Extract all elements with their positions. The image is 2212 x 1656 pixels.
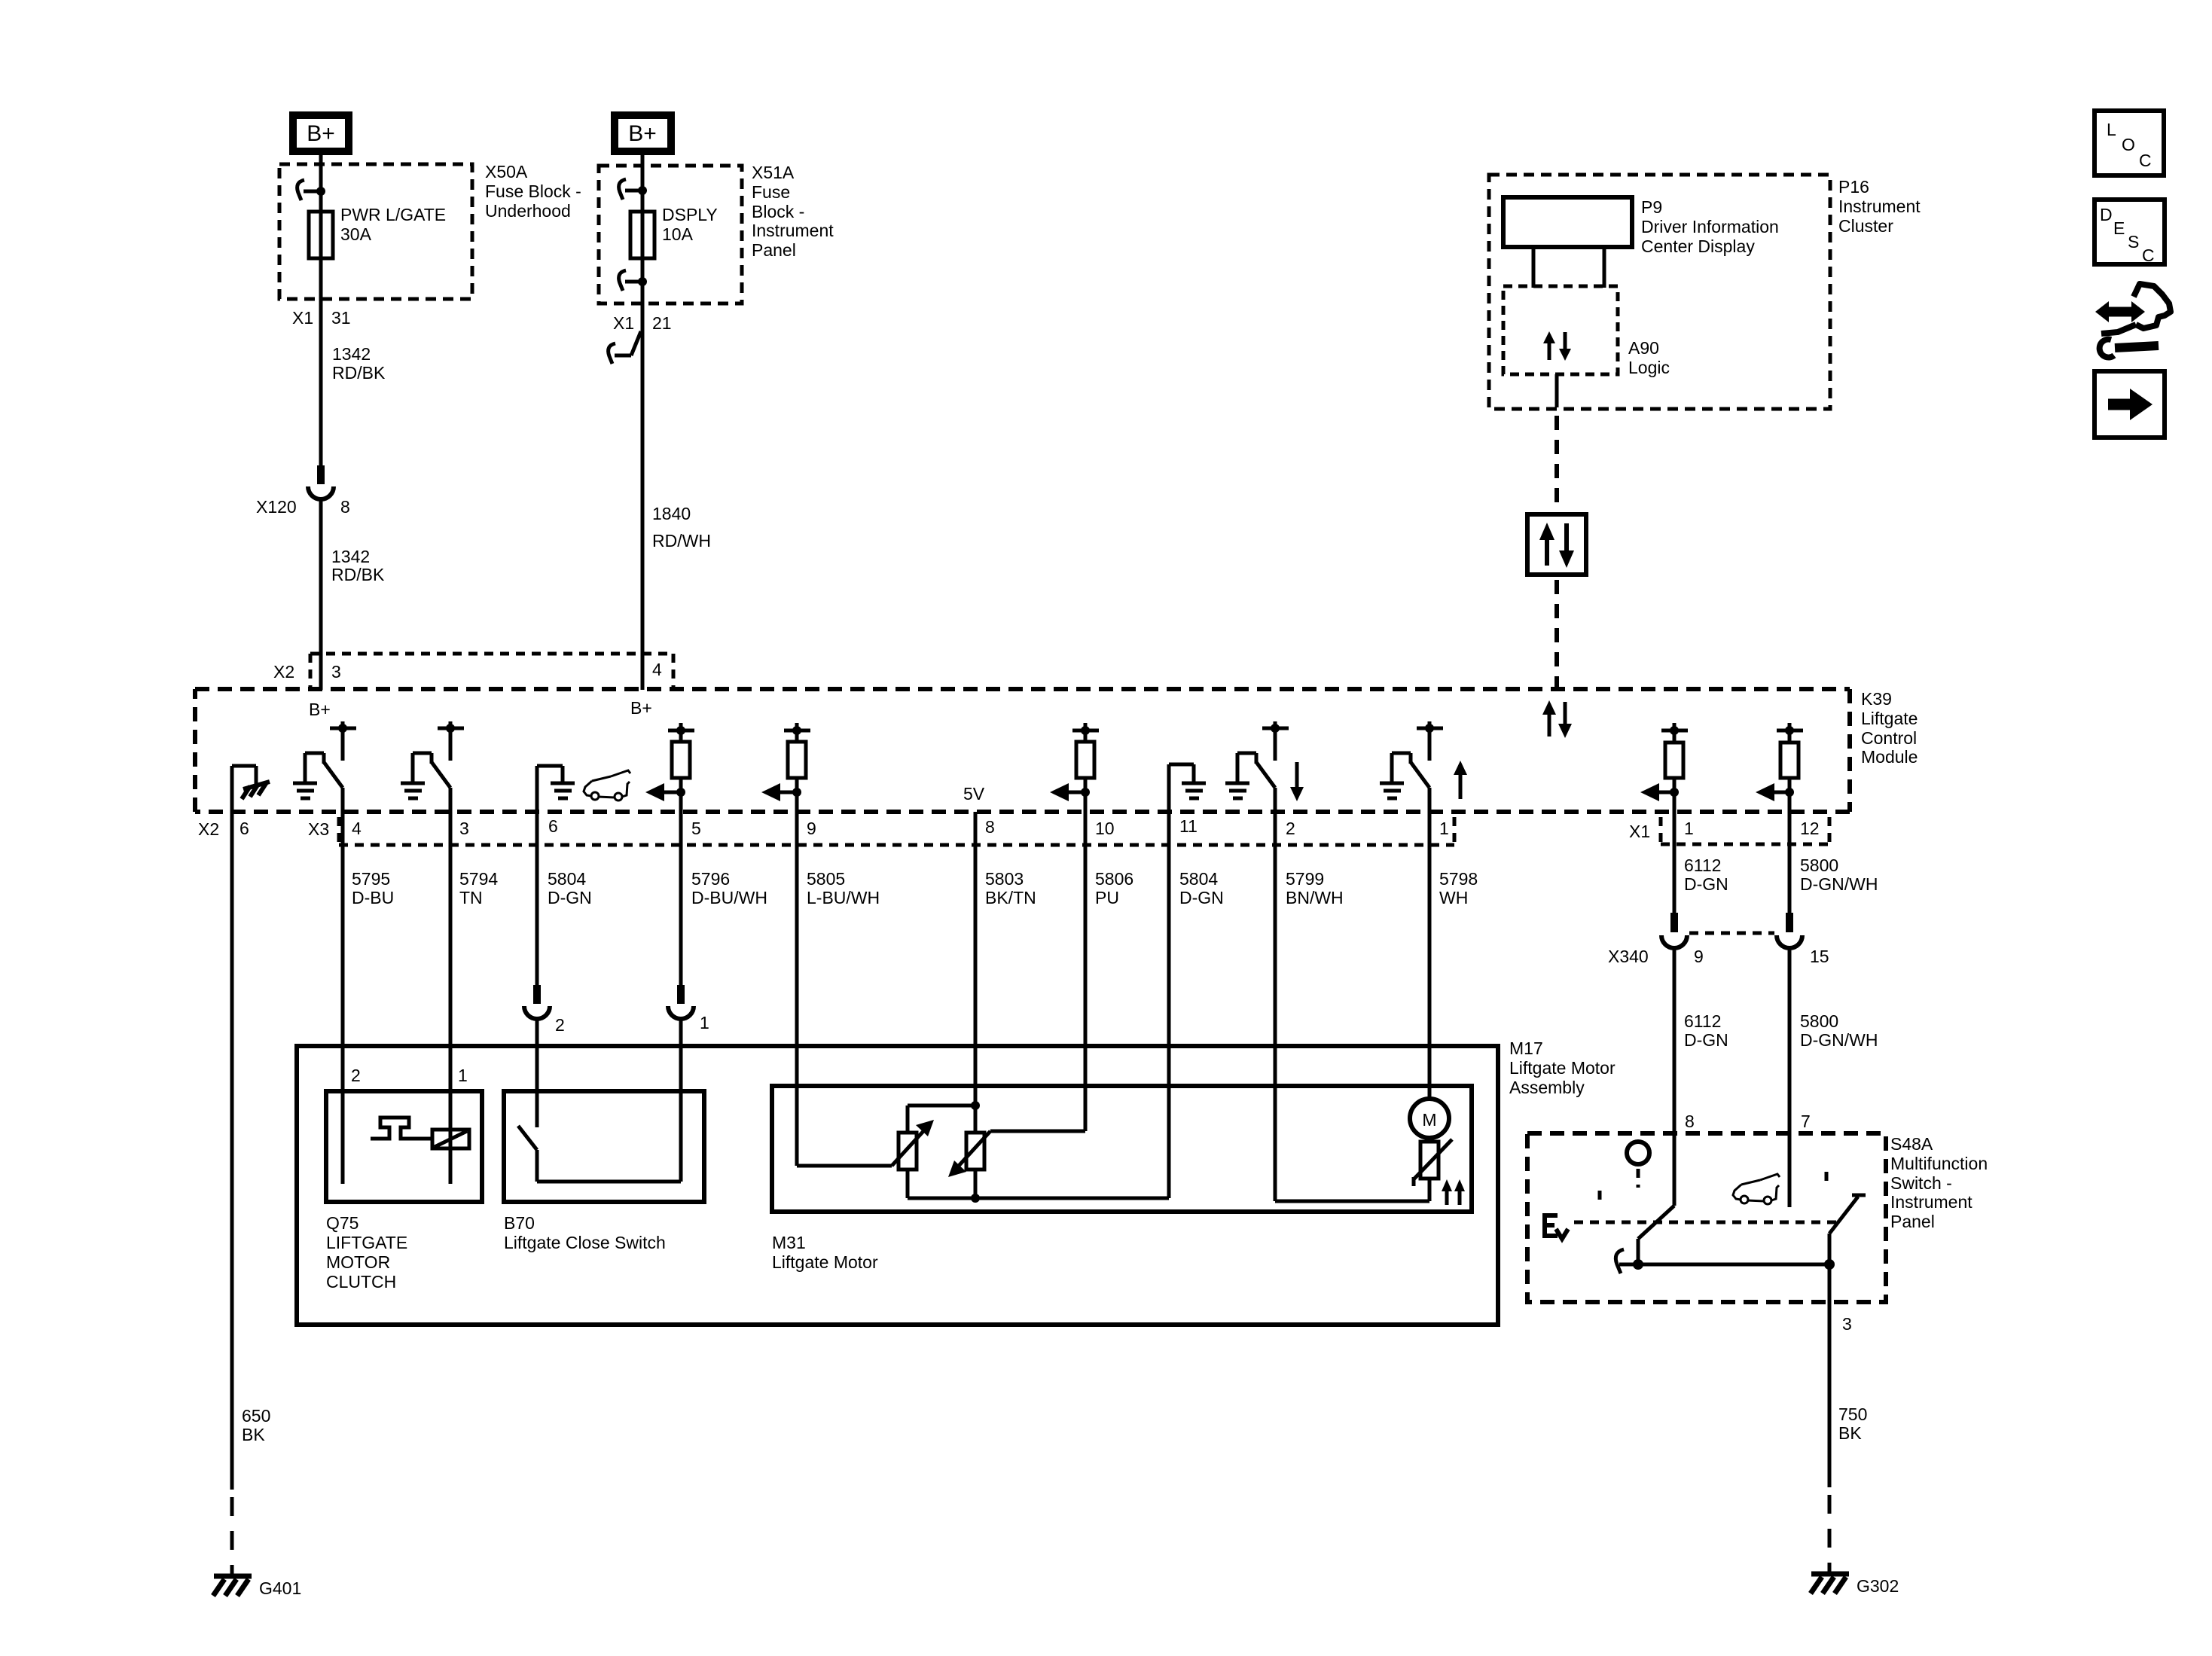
wire 5804 D-GN pin X3-11 to M31: [1167, 812, 1171, 1198]
thermal protector below motor: [1414, 1138, 1452, 1186]
dotted tie between X340 cavities: [1689, 932, 1774, 935]
wire motor return to pin X3-2: [1275, 1179, 1429, 1201]
svg-text:Module: Module: [1861, 747, 1918, 767]
input arrow at pin X3-5: [645, 783, 685, 801]
svg-text:BK/TN: BK/TN: [985, 888, 1036, 907]
svg-text:X1: X1: [1629, 822, 1650, 841]
connector X2 row bottom (pin 6) labels: [198, 819, 249, 839]
svg-text:BK: BK: [242, 1425, 265, 1444]
clutch Q75 box: [326, 1091, 482, 1202]
wire B+ to fuse F1: [319, 155, 323, 212]
node: junction dot fuse F2 input: [638, 186, 647, 195]
connector X340 inline (pin 9): [1661, 913, 1687, 948]
svg-text:5804: 5804: [1179, 869, 1218, 889]
switch contacts inside B70: [518, 1126, 681, 1182]
wire 650 BK pin X2-6 to G401: [230, 812, 234, 1574]
label wire 6112 D-GN (upper): [1684, 855, 1728, 894]
logic block A90 dashed box: [1503, 286, 1618, 374]
label P16 Instrument Cluster: [1838, 177, 1921, 236]
svg-text:D-GN: D-GN: [1179, 888, 1224, 907]
svg-text:Liftgate Close Switch: Liftgate Close Switch: [504, 1233, 666, 1252]
svg-text:B+: B+: [307, 121, 335, 146]
svg-text:Instrument: Instrument: [1890, 1192, 1972, 1212]
icon vehicle with double arrow and wrench: [2095, 284, 2171, 358]
wire 5804 D-GN pin X3-6 to connector: [535, 812, 539, 987]
svg-text:X1: X1: [292, 308, 313, 328]
svg-text:LIFTGATE: LIFTGATE: [326, 1233, 407, 1252]
label X51A Fuse Block - Instrument Panel: [752, 163, 834, 260]
switch blade right in S48A: [1829, 1195, 1866, 1264]
svg-text:Multifunction: Multifunction: [1890, 1154, 1988, 1173]
wire 5806 PU pin X3-10 to M31: [1084, 812, 1088, 1131]
svg-text:Switch -: Switch -: [1890, 1173, 1952, 1193]
inline connector on wire 5804 (B70 pin 2): [524, 985, 550, 1019]
terminal stub clip below X1:21: [609, 331, 641, 364]
svg-text:4: 4: [652, 660, 662, 679]
label wire 5800 D-GN/WH (upper): [1800, 855, 1878, 894]
svg-text:8: 8: [1685, 1112, 1695, 1131]
svg-text:X340: X340: [1608, 947, 1649, 966]
svg-text:10A: 10A: [662, 224, 694, 244]
svg-text:31: 31: [331, 308, 351, 328]
up arrow beside pin X3-1 switch: [1454, 761, 1467, 799]
svg-text:6: 6: [240, 819, 249, 838]
svg-text:D-GN/WH: D-GN/WH: [1800, 874, 1878, 894]
svg-text:5796: 5796: [691, 869, 730, 889]
svg-text:Control: Control: [1861, 728, 1917, 748]
svg-text:4: 4: [352, 819, 362, 838]
label DSPLY 10A: [662, 205, 718, 244]
input arrow at pin X3-9: [761, 783, 801, 801]
label X120 pin 8: [256, 497, 350, 517]
ground symbol inside K39 at pin X3-6: [537, 766, 575, 812]
svg-text:O: O: [2122, 135, 2135, 154]
svg-text:D-GN: D-GN: [548, 888, 592, 907]
wire 5800 D-GN/WH pin X1-12 to X340: [1788, 812, 1792, 913]
label K39 Liftgate Control Module: [1861, 689, 1918, 767]
wiper arrow of sensor 2: [948, 1131, 1085, 1177]
icon box arrow (continuation): [2095, 371, 2165, 438]
svg-text:5804: 5804: [548, 869, 586, 889]
svg-text:CLUTCH: CLUTCH: [326, 1272, 396, 1292]
svg-text:BK: BK: [1838, 1423, 1862, 1443]
svg-text:L: L: [2107, 120, 2116, 139]
svg-text:S: S: [2128, 232, 2139, 252]
svg-text:PWR L/GATE: PWR L/GATE: [340, 205, 446, 224]
label wire 5799 BN/WH: [1286, 869, 1344, 907]
wire sensor common to pin 11: [975, 1197, 1169, 1200]
label wire 5804 D-GN: [548, 869, 592, 907]
terminal clip at fuse F1 input: [297, 180, 321, 200]
wire 1342 RD/BK X120 to K39: [319, 497, 323, 690]
svg-text:D-GN/WH: D-GN/WH: [1800, 1030, 1878, 1050]
switch blade from pin 8 in S48A: [1638, 1206, 1674, 1264]
dashed tail of wire 750 BK: [1828, 1495, 1832, 1572]
svg-text:1342: 1342: [331, 547, 370, 566]
clip at S48A common: [1616, 1249, 1638, 1273]
wire 5794 TN pin X3-3 to Q75: [449, 812, 453, 1184]
ground G302: [1811, 1574, 1899, 1596]
fuse F2 DSPLY 10A: [630, 212, 654, 258]
svg-text:Assembly: Assembly: [1509, 1078, 1585, 1097]
svg-text:G401: G401: [259, 1578, 301, 1598]
label wire 5804 D-GN (pin 11): [1179, 869, 1224, 907]
svg-text:Block -: Block -: [752, 202, 804, 221]
node: junction dot right of S48A common: [1824, 1259, 1835, 1270]
svg-text:P9: P9: [1641, 197, 1662, 217]
clutch symbol inside Q75: [371, 1118, 432, 1139]
svg-text:DSPLY: DSPLY: [662, 205, 718, 224]
wire 5803 BK/TN pin X3-8 to M31: [974, 812, 978, 1106]
label wire 5794 TN: [459, 869, 498, 907]
svg-text:MOTOR: MOTOR: [326, 1252, 390, 1272]
svg-text:WH: WH: [1439, 888, 1468, 907]
label A90 Logic: [1628, 338, 1670, 377]
wire P9 leg right: [1603, 247, 1606, 288]
connector X3 row: [308, 817, 1454, 845]
fuse block X50A dashed box: [279, 164, 472, 299]
label wire 6112 D-GN (lower): [1684, 1011, 1728, 1050]
label wire 5805 L-BU/WH: [807, 869, 880, 907]
svg-text:B+: B+: [630, 698, 652, 718]
svg-text:Panel: Panel: [1890, 1212, 1935, 1231]
svg-text:TN: TN: [459, 888, 483, 907]
svg-text:Cluster: Cluster: [1838, 216, 1893, 236]
svg-text:8: 8: [985, 817, 995, 837]
svg-text:C: C: [2139, 151, 2152, 170]
liftgate motor assembly M17 box: [297, 1046, 1498, 1325]
svg-text:X51A: X51A: [752, 163, 795, 182]
svg-text:D-GN: D-GN: [1684, 874, 1728, 894]
wiper arrow of sensor 1: [797, 1120, 934, 1166]
actuator knob circle in S48A: [1627, 1142, 1649, 1164]
svg-text:6112: 6112: [1684, 1011, 1721, 1031]
svg-text:Q75: Q75: [326, 1213, 358, 1233]
svg-text:Driver Information: Driver Information: [1641, 217, 1779, 236]
svg-text:P16: P16: [1838, 177, 1869, 197]
wire top rail in M31: [908, 1106, 975, 1133]
svg-text:2: 2: [555, 1015, 565, 1035]
svg-text:5: 5: [691, 819, 701, 838]
double up arrows beside thermal protector: [1442, 1179, 1465, 1205]
svg-text:1: 1: [1439, 819, 1449, 838]
fuse F1 PWR L/GATE 30A: [309, 212, 333, 258]
position sensor resistor 2 (M31): [966, 1106, 984, 1198]
svg-text:5798: 5798: [1439, 869, 1478, 889]
label wire 5806 PU: [1095, 869, 1133, 907]
svg-text:Logic: Logic: [1628, 358, 1670, 377]
svg-text:8: 8: [340, 497, 350, 517]
svg-text:D-BU/WH: D-BU/WH: [691, 888, 767, 907]
svg-text:30A: 30A: [340, 224, 372, 244]
label P9 Driver Information Center Display: [1641, 197, 1779, 256]
wire 5796 connector to B70: [679, 1017, 683, 1182]
svg-text:5794: 5794: [459, 869, 498, 889]
label wire 5798 WH: [1439, 869, 1478, 907]
svg-text:X2: X2: [273, 662, 294, 682]
label wire 5795 D-BU: [352, 869, 394, 907]
svg-text:6112: 6112: [1684, 855, 1721, 875]
svg-text:3: 3: [459, 819, 469, 838]
driver switch to ground at pin X3-1: [1380, 721, 1443, 798]
label wire 5803 BK/TN: [985, 869, 1036, 907]
svg-text:3: 3: [331, 662, 341, 682]
svg-text:6: 6: [548, 816, 558, 836]
svg-text:RD/WH: RD/WH: [652, 531, 711, 550]
down arrow beside pin X3-2 switch: [1290, 762, 1304, 801]
svg-text:Fuse Block -: Fuse Block -: [485, 181, 581, 201]
svg-text:1: 1: [700, 1013, 709, 1032]
svg-text:S48A: S48A: [1890, 1134, 1933, 1154]
label B70 Liftgate Close Switch: [504, 1213, 666, 1252]
liftgate control module K39 dashed outline: [195, 689, 1850, 812]
liftgate motor M31 box: [772, 1086, 1472, 1212]
label M17 Liftgate Motor Assembly: [1509, 1038, 1616, 1097]
wire 5798 WH pin X3-1 to M31 motor: [1428, 812, 1432, 1099]
fuse block X51A dashed box: [599, 166, 742, 303]
connector X340 inline (pin 15): [1777, 913, 1802, 948]
liftgate close switch B70 box: [504, 1091, 704, 1202]
svg-text:A90: A90: [1628, 338, 1659, 358]
wire 5804 connector to B70: [535, 1017, 539, 1127]
label wire 1840 RD/WH: [652, 504, 711, 550]
wire pin X3-2: [1274, 788, 1277, 812]
svg-text:15: 15: [1810, 947, 1829, 966]
svg-text:D-GN: D-GN: [1684, 1030, 1728, 1050]
svg-text:21: 21: [652, 313, 672, 333]
dotted actuator linkage stubs in S48A: [1600, 1169, 1826, 1205]
clutch coil box with slash (Q75): [432, 1130, 469, 1148]
label X50A Fuse Block - Underhood: [485, 162, 581, 221]
pull-up resistor at pin X3-9: [784, 723, 810, 812]
svg-text:L-BU/WH: L-BU/WH: [807, 888, 880, 907]
wire 6112 D-GN pin X1-1 to X340: [1673, 812, 1677, 913]
multifunction switch S48A dashed box: [1527, 1133, 1886, 1302]
node: junction dot 5V feed in M31: [971, 1101, 980, 1110]
wire S48A pin 3 exit: [1828, 1264, 1832, 1487]
driver switch to ground at pin X3-2: [1225, 721, 1289, 798]
dashed serial data link lower: [1555, 580, 1559, 687]
wire fuse F1 to connector X120: [319, 258, 323, 467]
label connector X1 pin 21: [613, 313, 672, 333]
wire resistor 1 bottom leg: [908, 1170, 975, 1198]
label wire 1342 RD/BK (upper): [332, 344, 386, 383]
input arrow at pin X1-1: [1640, 783, 1679, 801]
node: junction dot left of S48A common: [1633, 1259, 1643, 1270]
svg-text:RD/BK: RD/BK: [331, 565, 385, 584]
ground symbol inside K39 at pin X2-6: [232, 766, 270, 812]
svg-text:X50A: X50A: [485, 162, 528, 181]
wire 5805 L-BU/WH pin X3-9 to M31: [795, 812, 799, 1166]
instrument cluster P16 dashed box: [1489, 175, 1830, 409]
connector X120 inline: [308, 465, 334, 499]
serial data arrows inside A90: [1543, 331, 1571, 361]
svg-text:D-BU: D-BU: [352, 888, 394, 907]
node: junction dot sensor common in M31: [971, 1194, 980, 1203]
connector X2 row (top, pins 3 and 4): [310, 654, 673, 688]
svg-text:Underhood: Underhood: [485, 201, 571, 221]
wire 5800 D-GN/WH X340 to S48A: [1788, 946, 1792, 1207]
wire pin X3-4: [341, 788, 345, 812]
icon box DESC: [2095, 200, 2165, 265]
dashed serial data link upper: [1555, 416, 1559, 512]
svg-text:M: M: [1422, 1110, 1436, 1130]
svg-text:Panel: Panel: [752, 240, 796, 260]
svg-text:650: 650: [242, 1406, 270, 1426]
serial data arrows inside K39: [1542, 700, 1572, 738]
pull-up resistor at pin X1-1: [1661, 723, 1688, 812]
terminal clip at fuse F2 input: [619, 179, 642, 200]
liftgate icon inside K39: [584, 770, 630, 801]
label S48A Multifunction Switch - Instrument Panel: [1890, 1134, 1988, 1231]
power symbol B+ (battery feed 1): [293, 115, 349, 151]
wire 5795 D-BU pin X3-4 to Q75: [341, 812, 345, 1184]
svg-text:5803: 5803: [985, 869, 1024, 889]
terminal clip at fuse F2 output: [619, 270, 642, 291]
svg-text:1840: 1840: [652, 504, 691, 523]
svg-text:1: 1: [1684, 819, 1694, 838]
driver switch to ground at pin X3-3: [401, 721, 464, 798]
connector X1 row: [1629, 817, 1829, 844]
svg-text:Liftgate Motor: Liftgate Motor: [772, 1252, 878, 1272]
svg-text:X2: X2: [198, 819, 219, 839]
dotted mechanical link line in S48A: [1574, 1221, 1840, 1224]
wire P9 leg left: [1532, 247, 1536, 288]
label M31 Liftgate Motor: [772, 1233, 878, 1272]
svg-text:7: 7: [1801, 1112, 1811, 1131]
svg-text:1342: 1342: [332, 344, 371, 364]
svg-text:G302: G302: [1857, 1576, 1899, 1596]
wire pin X3-3: [449, 788, 453, 812]
svg-text:PU: PU: [1095, 888, 1119, 907]
svg-text:2: 2: [351, 1066, 361, 1085]
position sensor resistor 1 (M31): [899, 1133, 917, 1170]
svg-text:B+: B+: [309, 700, 331, 719]
label wire 5800 D-GN/WH (lower): [1800, 1011, 1878, 1050]
wire B+ into fuse block X51A: [641, 155, 645, 212]
svg-text:M31: M31: [772, 1233, 806, 1252]
node: junction dot fuse F1 input: [316, 187, 325, 196]
input arrow at pin X3-10: [1050, 783, 1090, 801]
pull-up resistor at pin X3-5: [668, 723, 694, 812]
display P9 box: [1503, 197, 1632, 247]
svg-text:E: E: [2113, 218, 2125, 238]
svg-text:K39: K39: [1861, 689, 1892, 709]
svg-text:Center Display: Center Display: [1641, 236, 1755, 256]
svg-text:5V: 5V: [963, 784, 985, 804]
svg-text:BN/WH: BN/WH: [1286, 888, 1344, 907]
inline connector on wire 5796 (B70 pin 1): [668, 985, 694, 1019]
wire fuse F2 down: [641, 258, 645, 690]
svg-text:M17: M17: [1509, 1038, 1543, 1058]
svg-text:5800: 5800: [1800, 855, 1838, 875]
svg-text:5805: 5805: [807, 869, 845, 889]
svg-text:5799: 5799: [1286, 869, 1324, 889]
svg-text:12: 12: [1800, 819, 1820, 838]
wire pin X3-1: [1428, 788, 1432, 812]
serial data symbol box with arrows: [1527, 514, 1586, 575]
svg-text:B70: B70: [504, 1213, 535, 1233]
pull-up resistor at pin X1-12: [1777, 723, 1803, 812]
svg-text:X3: X3: [308, 819, 329, 839]
label wire 750 BK: [1838, 1404, 1867, 1443]
power symbol B+ (battery feed 2): [615, 115, 671, 151]
svg-text:X1: X1: [613, 313, 634, 333]
liftgate icon in S48A: [1733, 1174, 1780, 1204]
wire 5799 BN/WH pin X3-2 to M31: [1274, 812, 1277, 1201]
label wire 1342 RD/BK (lower): [331, 547, 385, 584]
wire stub below A90: [1555, 374, 1559, 407]
input arrow at pin X1-12: [1756, 783, 1794, 801]
svg-text:RD/BK: RD/BK: [332, 363, 386, 383]
svg-text:5800: 5800: [1800, 1011, 1838, 1031]
wire S48A common rail: [1638, 1263, 1829, 1267]
svg-text:750: 750: [1838, 1404, 1867, 1424]
svg-text:Liftgate Motor: Liftgate Motor: [1509, 1058, 1616, 1078]
svg-text:Fuse: Fuse: [752, 182, 790, 202]
svg-text:2: 2: [1286, 819, 1295, 838]
svg-text:5806: 5806: [1095, 869, 1133, 889]
wire 5796 D-BU/WH pin X3-5 to connector: [679, 812, 683, 987]
ground G401: [213, 1576, 301, 1598]
label wire 5796 D-BU/WH: [691, 869, 767, 907]
svg-text:Instrument: Instrument: [1838, 197, 1921, 216]
label X340 pin 9 and 15: [1608, 947, 1829, 966]
svg-text:5795: 5795: [352, 869, 390, 889]
svg-text:Liftgate: Liftgate: [1861, 709, 1918, 728]
svg-text:B+: B+: [628, 121, 657, 146]
svg-text:1: 1: [458, 1066, 468, 1085]
ground symbol inside K39 at pin X3-11: [1169, 764, 1206, 812]
label wire 650 BK: [242, 1406, 270, 1444]
driver switch to ground at pin X3-4: [293, 721, 356, 798]
svg-text:11: 11: [1179, 816, 1198, 836]
svg-text:9: 9: [807, 819, 816, 838]
svg-text:9: 9: [1694, 947, 1704, 966]
icon box LOC: [2095, 111, 2164, 175]
node: junction dot fuse F2 output: [638, 277, 647, 286]
pull-up resistor at pin X3-10: [1072, 723, 1099, 812]
icon liftgate ajar (Ev) in S48A: [1545, 1215, 1568, 1239]
svg-text:10: 10: [1095, 819, 1115, 838]
svg-text:3: 3: [1842, 1314, 1852, 1334]
label Q75 LIFTGATE MOTOR CLUTCH: [326, 1213, 407, 1292]
svg-text:X120: X120: [256, 497, 297, 517]
label PWR L/GATE 30A: [340, 205, 446, 244]
label connector X1 pin 31: [292, 308, 351, 328]
svg-text:D: D: [2100, 205, 2113, 224]
svg-text:C: C: [2142, 246, 2155, 265]
motor M symbol (M31): [1410, 1099, 1449, 1138]
wire 6112 D-GN X340 to S48A: [1673, 946, 1677, 1206]
svg-text:Instrument: Instrument: [752, 221, 834, 240]
